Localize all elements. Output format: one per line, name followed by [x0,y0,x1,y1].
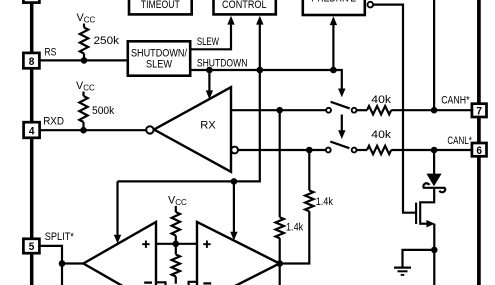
switch1 control to switch2 arrow [338,115,345,140]
svg-text:4: 4 [29,125,35,137]
wire RX+ node down [279,110,281,217]
svg-text:VCC: VCC [168,195,187,208]
svg-text:SLEW: SLEW [197,36,220,48]
resistor 1.4k (lower) [276,217,304,238]
pin 7 box [472,104,487,118]
wire right amp tip to node [277,262,281,264]
wire RX inverting input to switch2 [238,149,326,151]
comparator RX [154,87,231,172]
RX output bubble [146,126,153,133]
node on RXD wire [80,127,87,134]
node source/ground [431,247,438,254]
RX inverting input bubble [231,147,238,154]
node amps enable [231,178,238,185]
wire SPLIT pin5 [39,246,62,285]
svg-text:PREDRIVE: PREDRIVE [312,0,357,5]
resistor 40k (CANL) [357,129,392,154]
node CANL [431,147,438,154]
PREDRIVE box [303,0,365,15]
wire 1.4k lower to output node [279,238,281,263]
arrow into left amp [114,181,121,243]
svg-text:7: 7 [476,106,482,118]
wire to ground [403,250,435,267]
wire 40k to pin7 CANH [391,109,473,111]
svg-text:VCC: VCC [76,80,95,93]
wire 40k to pin6 CANL [391,149,473,151]
svg-text:RX: RX [200,120,216,132]
arrow into CONTROL (shutdown) [256,16,263,70]
wire RX- node down [308,150,310,190]
node CANH [431,107,438,114]
wire schottky to NMOS drain [421,188,434,203]
svg-text:CANL*: CANL* [447,135,472,147]
wire RX noninverting input to switch1 [231,109,326,111]
node amp output [276,260,283,267]
A1 feedback stub [156,282,166,285]
svg-text:SHUTDOWN: SHUTDOWN [197,57,248,69]
right chip rail [477,0,481,285]
NMOS M1 [416,201,435,227]
wire output node down [279,264,281,285]
wire CANL to schottky [433,150,435,174]
resistor divider lower [172,244,180,284]
wire RS pin8 to shutdown/slew [39,59,128,61]
pin 6 box [472,143,487,157]
svg-text:1.4k: 1.4k [316,196,334,208]
wire PREDRIVE to NMOS gate [373,5,415,213]
svg-text:CANH*: CANH* [441,94,470,106]
resistor 250k [80,24,120,61]
svg-text:SLEW: SLEW [146,59,173,71]
arrow onto switch1 [338,89,345,98]
node shutdown/rx [206,67,213,74]
arrow into PREDRIVE [330,16,337,70]
pin 4 box [24,122,40,138]
top-left pin box (cut off) [23,0,39,3]
resistor 40k (CANH) [357,94,392,114]
svg-text:6: 6 [476,145,482,157]
svg-text:250k: 250k [94,35,120,47]
wire from top to CANH node [433,0,435,110]
resistor 1.4k (upper) [305,190,333,211]
svg-text:8: 8 [29,56,35,68]
svg-text:500k: 500k [92,105,115,117]
node RX+ / 1.4k [276,107,283,114]
node RX- / 1.4k [306,147,313,154]
svg-text:CONTROL: CONTROL [222,0,267,11]
pin 8 box [23,53,39,68]
wire 1.4k upper to output node [280,211,310,263]
A2 feedback stub [189,282,197,285]
node shutdown/predrive [330,67,337,74]
resistor 500k [79,92,114,131]
arrow into RX [206,70,213,99]
svg-text:SPLIT*: SPLIT* [45,231,75,243]
wire divider to amp + inputs [156,243,197,245]
node on RS wire [81,57,88,64]
svg-text:VCC: VCC [77,12,96,25]
ground [394,268,411,275]
svg-text:SHUTDOWN/: SHUTDOWN/ [131,47,187,59]
node SPLIT [59,260,66,267]
wire SLEW to CONTROL [190,24,231,50]
svg-text:RS: RS [44,47,56,59]
svg-text:TIMEOUT: TIMEOUT [141,0,180,11]
pin 5 box [23,239,39,253]
wire shutdown down to amps [118,70,260,181]
SHUTDOWN/SLEW box [128,41,190,75]
resistor divider upper [172,206,180,244]
switch S2 [326,142,357,153]
TIMEOUT box U-timeout [129,0,192,14]
wire NMOS source down [433,224,435,285]
PREDRIVE output bubble [368,2,374,8]
svg-text:40k: 40k [371,129,391,141]
node shutdown/control [257,67,264,74]
svg-text:5: 5 [29,241,35,253]
op-amp A2 (rx threshold buffer) [197,222,280,285]
arrow into CONTROL (slew) [227,16,234,25]
wire SPLIT to left amp tip [62,262,84,264]
wire SHUTDOWN [190,70,342,89]
svg-text:RXD: RXD [43,115,64,127]
CONTROL box [214,0,276,14]
schottky diode D1 [423,174,445,193]
left chip rail [30,0,34,285]
svg-text:40k: 40k [371,94,391,106]
node divider mid [173,241,180,248]
wire RXD pin4 to RX output bubble [39,129,146,131]
op-amp A1 (split buffer) [83,222,156,285]
switch S1 [326,102,356,113]
svg-text:1.4k: 1.4k [286,221,304,233]
arrow into right amp [230,181,237,240]
